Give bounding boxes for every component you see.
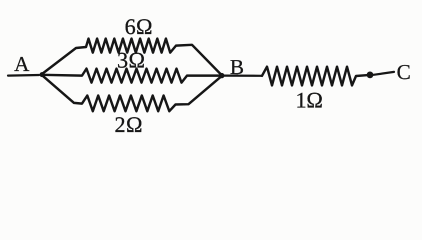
svg-text:Ω: Ω xyxy=(136,14,153,39)
svg-text:C: C xyxy=(397,60,411,84)
svg-text:1: 1 xyxy=(295,88,306,113)
svg-text:B: B xyxy=(230,55,244,79)
svg-text:Ω: Ω xyxy=(126,112,143,137)
svg-text:Ω: Ω xyxy=(129,48,146,73)
svg-text:A: A xyxy=(14,52,30,76)
svg-text:6: 6 xyxy=(125,14,136,39)
svg-text:2: 2 xyxy=(115,112,126,137)
svg-text:3: 3 xyxy=(117,48,128,73)
svg-text:Ω: Ω xyxy=(306,88,323,113)
